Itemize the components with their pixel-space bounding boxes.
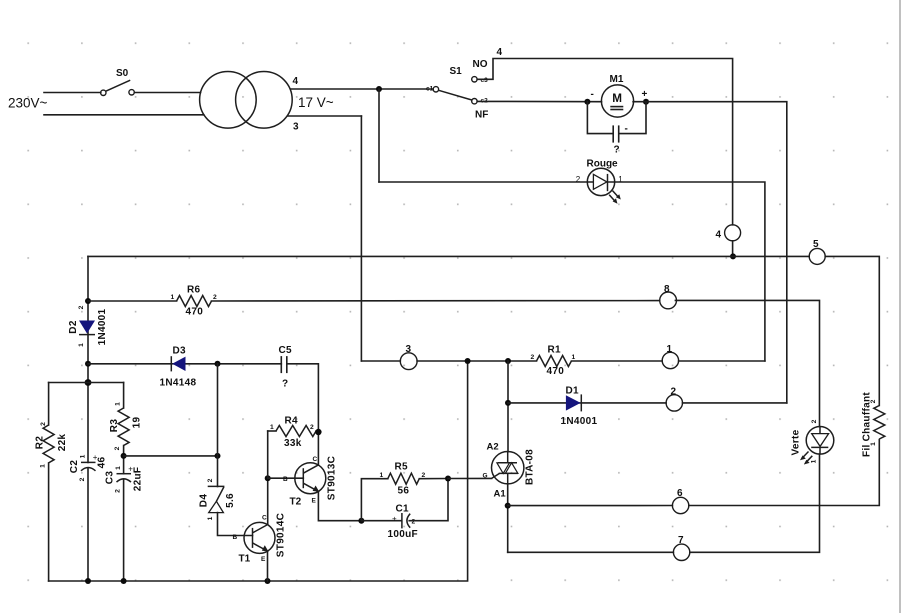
svg-text:2: 2 — [207, 478, 214, 482]
svg-text:B: B — [283, 476, 288, 483]
svg-text:G: G — [483, 473, 488, 480]
zener D4 5.6 — [199, 478, 237, 520]
svg-text:17 V~: 17 V~ — [298, 95, 334, 110]
svg-text:c1: c1 — [426, 86, 434, 93]
svg-text:E: E — [312, 498, 317, 505]
LED Verte — [791, 419, 834, 464]
wire connector7 to Verte — [690, 454, 820, 552]
wire R6 to connector 8 — [212, 300, 660, 302]
node D1 tap — [505, 400, 511, 406]
LED Rouge — [576, 159, 624, 204]
svg-text:M1: M1 — [610, 74, 624, 85]
connector pin 6 — [672, 488, 688, 514]
wire 230V top to S0 — [44, 92, 101, 94]
wire triac column — [507, 361, 509, 452]
svg-text:19: 19 — [132, 417, 143, 429]
svg-text:1: 1 — [667, 344, 673, 355]
svg-text:R1: R1 — [548, 345, 562, 356]
wire R5 pin2 to gate node — [419, 478, 448, 480]
node R3/D4 wire — [121, 453, 127, 459]
resistor R2 22k — [35, 383, 69, 582]
wire C5 right down to T2 collector — [287, 364, 319, 465]
svg-text:2: 2 — [78, 305, 85, 309]
motor M1 — [591, 74, 648, 117]
resistor R1 470 — [531, 345, 576, 378]
wire motor cap loop right — [619, 102, 646, 134]
svg-text:4: 4 — [293, 76, 299, 87]
diode D3 1N4148 — [160, 346, 197, 389]
svg-text:33k: 33k — [284, 438, 302, 449]
node bottom/T1 emitter — [265, 578, 271, 584]
wire D1 line — [508, 402, 666, 404]
wire left rail vertical — [87, 256, 89, 462]
wire D4 to T1 base — [218, 513, 253, 536]
node junction rail/connector4 — [730, 253, 736, 259]
wire S1 NF to motor — [477, 100, 601, 102]
svg-text:D4: D4 — [199, 494, 210, 508]
svg-text:2: 2 — [310, 424, 314, 431]
connector pin 2 — [666, 387, 682, 412]
svg-text:BTA-08: BTA-08 — [525, 449, 536, 485]
wire connector6 line — [508, 505, 673, 507]
resistor Fil Chauffant — [862, 392, 885, 457]
resistor R4 33k — [268, 416, 319, 450]
wire D4 column — [217, 364, 219, 487]
svg-text:C3: C3 — [105, 471, 116, 485]
svg-text:E: E — [261, 556, 266, 563]
svg-text:22k: 22k — [57, 434, 68, 452]
node rail/D3 wire — [85, 361, 91, 367]
wire connector5 to heater drop — [825, 256, 879, 405]
switch S1 — [426, 59, 488, 121]
wire T2 emitter down to C1 line — [318, 492, 361, 521]
svg-text:2: 2 — [115, 489, 122, 493]
node T2 base / R4 — [265, 475, 271, 481]
svg-text:1: 1 — [380, 472, 384, 479]
svg-text:C: C — [313, 456, 318, 463]
svg-text:3: 3 — [406, 344, 412, 355]
svg-text:1: 1 — [207, 516, 214, 520]
svg-text:1: 1 — [870, 442, 877, 446]
triac BTA-08 — [483, 442, 536, 500]
svg-text:Verte: Verte — [791, 429, 802, 455]
svg-text:c3: c3 — [481, 77, 489, 84]
node junction pin4/Rouge — [376, 86, 382, 92]
svg-text:A1: A1 — [494, 489, 507, 500]
wire motor right to connector2 drop — [633, 102, 787, 403]
connector pin 5 — [809, 239, 825, 264]
svg-text:ST9014C: ST9014C — [276, 513, 287, 557]
wire S1 NO to connector 4 — [477, 47, 732, 225]
svg-text:1: 1 — [572, 354, 576, 361]
node A1 — [505, 503, 511, 509]
transistor T2 ST9013C — [283, 456, 338, 508]
capacitor C2 — [69, 453, 108, 481]
wire long rail y256 — [88, 255, 809, 257]
wire connector4 to rail — [732, 241, 734, 257]
svg-text:2: 2 — [811, 419, 818, 423]
svg-text:1: 1 — [115, 466, 122, 470]
svg-text:C1: C1 — [396, 504, 410, 515]
wire R3 column top — [123, 383, 125, 409]
svg-text:A2: A2 — [487, 442, 499, 453]
connector pin 7 — [673, 535, 689, 561]
node rail/R2R3 wire — [85, 379, 92, 386]
svg-text:1: 1 — [811, 459, 818, 463]
wire gate to triac — [448, 477, 492, 479]
svg-text:7: 7 — [678, 535, 684, 546]
wire connector2 right — [683, 402, 787, 404]
node bottom-return column — [465, 358, 471, 364]
svg-text:5: 5 — [813, 239, 819, 250]
wire triac A1 down — [507, 484, 509, 552]
wire secondary pin4 to S1 — [290, 88, 433, 90]
wire C1 right to gate node — [409, 479, 448, 521]
svg-text:2: 2 — [576, 175, 581, 184]
svg-text:S0: S0 — [116, 68, 129, 79]
svg-text:2: 2 — [671, 387, 677, 398]
capacitor C5 — [279, 345, 293, 390]
wire S0 to transformer primary — [134, 92, 200, 94]
diode D1 1N4001 — [561, 386, 598, 428]
connector pin 1 — [662, 344, 678, 369]
svg-text:2: 2 — [870, 399, 877, 403]
node motor right — [643, 99, 649, 105]
svg-text:1: 1 — [40, 464, 47, 468]
svg-text:2: 2 — [79, 477, 86, 481]
switch S0 — [101, 68, 135, 96]
resistor R6 — [171, 285, 218, 318]
svg-text:2: 2 — [412, 519, 416, 526]
wire C1 left lead — [361, 520, 401, 522]
wire connector8 to Verte drop — [675, 300, 819, 426]
svg-text:1: 1 — [270, 424, 274, 431]
svg-text:R3: R3 — [109, 419, 120, 433]
wire C3 bottom — [123, 480, 125, 581]
node rail/R6 — [85, 298, 91, 304]
svg-text:R2: R2 — [35, 436, 46, 450]
transformer — [200, 72, 334, 133]
svg-text:8: 8 — [664, 284, 670, 295]
connector pin 3 — [400, 344, 417, 370]
wire junction down to Rouge LED line — [378, 89, 380, 182]
svg-text:NF: NF — [475, 110, 488, 121]
capacitor C3 22uF — [105, 464, 144, 493]
wire R1 to connector 1 — [572, 360, 663, 362]
node D3/D4 column — [215, 361, 221, 367]
wire Rouge line left — [379, 181, 587, 183]
wire T1 emitter down — [267, 551, 269, 581]
node bottom/C2 — [85, 578, 91, 584]
transistor T1 ST9014C — [233, 513, 287, 565]
svg-text:C2: C2 — [69, 460, 80, 474]
node gate — [445, 476, 451, 482]
svg-text:?: ? — [282, 379, 288, 390]
svg-text:T1: T1 — [239, 554, 251, 565]
svg-text:1N4148: 1N4148 — [160, 378, 197, 389]
wire R3 to D4 link — [124, 455, 218, 457]
svg-text:D1: D1 — [566, 386, 580, 397]
svg-text:2: 2 — [40, 422, 47, 426]
wire connector6 to heater — [689, 440, 880, 506]
svg-text:1: 1 — [115, 402, 122, 406]
connector pin 4 — [716, 225, 741, 241]
svg-text:ST9013C: ST9013C — [327, 456, 338, 500]
wire D3 line — [88, 363, 281, 365]
svg-text:D2: D2 — [68, 320, 79, 334]
svg-text:C: C — [262, 515, 267, 522]
wire R6 lead left — [88, 300, 177, 302]
wire 230V bottom to transformer primary — [44, 114, 204, 116]
wire connector7 line — [508, 551, 674, 553]
svg-text:+: + — [642, 89, 648, 100]
svg-text:?: ? — [614, 145, 620, 156]
svg-text:S1: S1 — [450, 66, 463, 77]
svg-text:R5: R5 — [395, 462, 409, 473]
svg-text:2: 2 — [114, 446, 121, 450]
svg-text:NO: NO — [473, 59, 488, 70]
node D4 column — [215, 453, 221, 459]
wire connector1 right — [679, 360, 765, 362]
svg-text:1N4001: 1N4001 — [561, 416, 598, 427]
wire Rouge line right to connector1 drop — [615, 182, 765, 361]
wire R5 left link — [361, 479, 387, 521]
svg-text:+: + — [392, 515, 397, 524]
wire bottom return — [49, 361, 468, 581]
svg-text:B: B — [233, 534, 238, 541]
node R4 pin2 / C5 / T2 collector — [315, 429, 321, 435]
node bottom/C3 — [121, 578, 127, 584]
svg-text:1: 1 — [78, 343, 85, 347]
svg-text:C5: C5 — [279, 345, 293, 356]
node C1 left — [358, 518, 364, 524]
resistor R3 19 — [109, 402, 143, 451]
svg-text:22uF: 22uF — [133, 467, 144, 492]
wire motor cap loop left — [587, 102, 612, 134]
resistor R5 56 — [380, 462, 426, 497]
svg-text:-: - — [591, 89, 594, 100]
wire R4 pin1 lead — [267, 431, 269, 478]
wire node to T2 base — [268, 477, 304, 479]
svg-text:1: 1 — [171, 294, 175, 301]
svg-text:100uF: 100uF — [388, 529, 418, 540]
diode D2 1N4001 — [68, 305, 108, 347]
node triac column top — [505, 358, 511, 364]
capacitor C1 100uF — [388, 504, 418, 541]
svg-text:M: M — [612, 92, 622, 105]
wire connector3 to R1 — [417, 360, 536, 362]
svg-text:230V~: 230V~ — [8, 96, 48, 111]
svg-text:1N4001: 1N4001 — [97, 308, 108, 345]
svg-text:1: 1 — [80, 454, 87, 458]
svg-text:2: 2 — [213, 294, 217, 301]
svg-text:3: 3 — [293, 122, 299, 133]
svg-text:Rouge: Rouge — [587, 159, 619, 170]
node motor left — [584, 99, 590, 105]
svg-text:470: 470 — [547, 366, 565, 377]
wire secondary pin3 — [288, 115, 362, 117]
svg-text:46: 46 — [97, 457, 108, 469]
wire R2 R3 top link — [49, 382, 124, 384]
svg-text:4: 4 — [716, 230, 722, 241]
svg-text:4: 4 — [497, 47, 503, 58]
svg-text:56: 56 — [398, 486, 410, 497]
svg-text:6: 6 — [677, 488, 683, 499]
wire T1 collector up — [267, 478, 269, 524]
svg-text:5.6: 5.6 — [225, 493, 236, 508]
svg-text:T2: T2 — [290, 497, 302, 508]
wire pin3 down to connector3 line — [360, 116, 362, 361]
wire switched line: connector3 run — [361, 360, 400, 362]
svg-text:D3: D3 — [173, 346, 187, 357]
svg-text:470: 470 — [186, 307, 204, 318]
capacitor motor (?) — [613, 124, 628, 156]
connector pin 8 — [660, 284, 677, 309]
svg-text:2: 2 — [531, 354, 535, 361]
svg-text:R6: R6 — [187, 285, 201, 296]
svg-text:R4: R4 — [285, 416, 299, 427]
wire R3 to C3 — [123, 446, 125, 474]
